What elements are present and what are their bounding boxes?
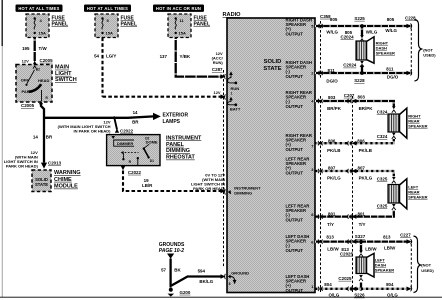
- bottom border line: [0, 296, 442, 298]
- svg-text:S225: S225: [354, 16, 365, 21]
- svg-text:C227: C227: [400, 233, 411, 238]
- svg-text:OUTPUT: OUTPUT: [286, 147, 304, 152]
- svg-text:OUTPUT: OUTPUT: [286, 74, 304, 79]
- splice S327: [355, 234, 366, 244]
- svg-text:LB/W: LB/W: [327, 247, 339, 252]
- left dash speaker SP4: [356, 253, 394, 277]
- svg-text:RUN): RUN): [213, 60, 224, 65]
- svg-text:DOME: DOME: [146, 139, 158, 144]
- node C228: [405, 16, 416, 72]
- splice S226: [354, 287, 365, 298]
- svg-text:GROUND: GROUND: [231, 270, 249, 275]
- svg-text:BR: BR: [46, 135, 53, 140]
- svg-text:SPEAKER: SPEAKER: [376, 51, 395, 56]
- svg-text:PK/LB: PK/LB: [359, 148, 372, 153]
- fuse panel 3 box: [168, 14, 210, 38]
- svg-text:C2025: C2025: [340, 251, 354, 256]
- svg-text:C2024: C2024: [343, 63, 357, 68]
- node C2022 bottom: [121, 166, 142, 175]
- svg-text:813: 813: [326, 235, 334, 240]
- svg-text:D1: D1: [150, 159, 154, 163]
- svg-text:INSTRUMENT: INSTRUMENT: [166, 135, 202, 141]
- right rear speaker SP2: [388, 108, 428, 138]
- svg-text:C2022: C2022: [120, 128, 134, 133]
- svg-text:PARK OR HEAD): PARK OR HEAD): [6, 164, 39, 169]
- svg-text:137: 137: [160, 54, 168, 59]
- wire branch to rheostat C2022: [114, 116, 134, 133]
- instrument panel dimming rheostat U-RHEO: [107, 135, 202, 166]
- svg-text:PANEL: PANEL: [166, 142, 185, 148]
- svg-text:PARK OR HEAD): PARK OR HEAD): [193, 186, 226, 191]
- svg-text:BR/PK: BR/PK: [359, 106, 374, 111]
- wire row6 801 T/Y: [315, 203, 396, 227]
- wire 54 LG/Y: [94, 38, 226, 100]
- radio pin GROUND: [225, 270, 249, 285]
- svg-text:PANEL: PANEL: [121, 22, 138, 28]
- svg-text:C2005: C2005: [21, 103, 35, 108]
- svg-text:HOT IN ACC OR RUN: HOT IN ACC OR RUN: [156, 6, 201, 11]
- svg-text:811: 811: [386, 66, 394, 71]
- node C2005 bottom: [21, 101, 43, 108]
- svg-text:T/Y: T/Y: [359, 222, 366, 227]
- note 0V to 12V: [191, 172, 226, 191]
- connector plane C358/C207 left dashed: [320, 21, 322, 292]
- svg-text:CHIME: CHIME: [54, 177, 72, 183]
- svg-text:803: 803: [358, 95, 366, 100]
- svg-text:LB/W: LB/W: [384, 245, 396, 250]
- svg-text:USED): USED): [421, 268, 434, 273]
- svg-text:801: 801: [328, 212, 336, 217]
- wire branch 811 from speaker to S228: [343, 61, 364, 73]
- svg-text:813: 813: [383, 235, 391, 240]
- svg-text:PK/LG: PK/LG: [359, 176, 373, 181]
- svg-text:GROUNDS: GROUNDS: [159, 242, 185, 248]
- svg-text:STATE: STATE: [35, 182, 48, 187]
- svg-text:OUTPUT: OUTPUT: [286, 31, 304, 36]
- radio right pin label RIGHT REAR SPEAKER (-) pin 4: [286, 90, 315, 109]
- svg-text:(NOT: (NOT: [421, 263, 431, 268]
- svg-text:805: 805: [387, 17, 395, 22]
- node C227: [400, 233, 411, 288]
- svg-text:14: 14: [133, 110, 138, 115]
- svg-text:W/LG: W/LG: [326, 30, 338, 35]
- main light switch U-SW: [16, 61, 77, 102]
- svg-text:S226: S226: [354, 293, 365, 298]
- svg-text:57: 57: [161, 268, 166, 273]
- svg-text:12V: 12V: [22, 58, 29, 63]
- header HOT AT ALL TIMES (middle): [84, 5, 131, 12]
- svg-text:195: 195: [22, 46, 30, 51]
- ground G200: [168, 288, 191, 297]
- svg-text:801: 801: [358, 212, 366, 217]
- svg-text:LG/Y: LG/Y: [106, 54, 116, 59]
- svg-text:OFF: OFF: [21, 77, 30, 82]
- fuse panel 2 box: [95, 14, 137, 38]
- grounds arrow: [159, 242, 185, 259]
- fuse F2 symbol: [101, 17, 113, 35]
- svg-text:C325: C325: [377, 203, 388, 208]
- svg-text:C324: C324: [377, 110, 388, 115]
- svg-text:LB/R: LB/R: [142, 183, 153, 188]
- right dash speaker SP1: [356, 37, 395, 63]
- svg-text:PANEL: PANEL: [194, 22, 211, 28]
- svg-text:C207: C207: [344, 93, 355, 98]
- svg-text:MODULE: MODULE: [54, 184, 78, 190]
- radio right pin label LEFT REAR SPEAKER (+) pin 3: [286, 157, 315, 176]
- page edge artifact left: [1, 0, 3, 46]
- wire row5 807 PK/LG: [315, 165, 396, 183]
- svg-text:BK: BK: [174, 268, 181, 273]
- svg-text:C2005: C2005: [40, 58, 54, 63]
- fuse panel 1 box: [26, 14, 68, 38]
- node C2005 top: [22, 58, 53, 64]
- svg-text:803: 803: [328, 95, 336, 100]
- svg-text:C287: C287: [212, 67, 223, 72]
- radio pin INSTRUMENT DIMMING: [225, 186, 261, 196]
- svg-text:S327: S327: [355, 234, 366, 239]
- svg-text:SWITCH: SWITCH: [55, 77, 77, 83]
- svg-text:C2025: C2025: [338, 276, 352, 281]
- svg-text:DG/O: DG/O: [387, 75, 399, 80]
- node C207: [344, 93, 355, 98]
- svg-text:805: 805: [330, 17, 338, 22]
- svg-text:804: 804: [386, 282, 394, 287]
- connector plane C207 right dashed: [352, 96, 354, 292]
- svg-text:BR: BR: [132, 119, 139, 124]
- svg-text:W/LG: W/LG: [385, 28, 397, 33]
- fuse F3 symbol: [175, 17, 186, 35]
- wire 14 BR horizontal to exterior lamps: [44, 110, 154, 124]
- left rear speaker SP3: [388, 179, 428, 209]
- svg-text:STATE: STATE: [263, 66, 281, 72]
- wire row8 804 O/LG: [315, 282, 412, 298]
- wire row1 805 W/LG: [315, 17, 412, 35]
- svg-text:T/Y: T/Y: [327, 222, 334, 227]
- svg-text:BR/PK: BR/PK: [327, 106, 342, 111]
- wire 137 Y/BK: [160, 38, 226, 79]
- radio right pin label RIGHT REAR SPEAKER (+) pin 7: [286, 133, 315, 152]
- connector plane C287 dashed: [223, 70, 225, 267]
- svg-text:PAGE 10-2: PAGE 10-2: [159, 248, 184, 254]
- svg-text:PK/LB: PK/LB: [327, 148, 340, 153]
- radio right pin label LEFT DASH SPEAKER (-) pin 6: [286, 234, 315, 253]
- svg-text:HOT AT ALL TIMES: HOT AT ALL TIMES: [18, 6, 59, 11]
- note 12V with main light switch (chime): [4, 150, 39, 169]
- svg-text:LIGHT: LIGHT: [55, 71, 72, 77]
- svg-text:806: 806: [357, 138, 365, 143]
- wire branch 813 to left dash speaker: [340, 242, 363, 257]
- wire 57 BK: [161, 259, 181, 288]
- svg-text:14: 14: [33, 135, 38, 140]
- bracket NOT USED top: [415, 20, 437, 82]
- wire row7 813 LB/W: [315, 235, 412, 252]
- svg-text:12V: 12V: [213, 90, 220, 95]
- wire from switch to branch: [41, 103, 44, 118]
- svg-text:C2022: C2022: [128, 170, 142, 175]
- svg-text:SPEAKER: SPEAKER: [375, 268, 394, 273]
- svg-text:807: 807: [328, 165, 336, 170]
- svg-text:LB/W: LB/W: [365, 247, 377, 252]
- svg-text:1: 1: [231, 92, 233, 96]
- wire 594 BK/LG: [172, 269, 226, 286]
- svg-text:MAIN: MAIN: [55, 65, 69, 71]
- svg-text:OUTPUT: OUTPUT: [286, 248, 304, 253]
- svg-text:OUTPUT: OUTPUT: [286, 104, 304, 109]
- svg-text:804: 804: [324, 282, 332, 287]
- svg-text:594: 594: [198, 269, 206, 274]
- svg-text:BATT: BATT: [230, 107, 241, 112]
- svg-text:SPEAKER: SPEAKER: [408, 124, 427, 129]
- svg-text:DG/O: DG/O: [326, 78, 338, 83]
- splice S228: [354, 71, 365, 83]
- svg-text:PANEL: PANEL: [52, 22, 69, 28]
- wire row3 803 BR/PK: [315, 95, 396, 115]
- wire 14 BR down to chime: [33, 117, 53, 163]
- wire 19 LB/R: [123, 171, 226, 194]
- fuse F1 symbol: [34, 17, 46, 35]
- node C287: [212, 51, 224, 72]
- svg-text:RUN: RUN: [231, 86, 240, 91]
- wire row4 806 PK/LB: [315, 133, 396, 153]
- svg-text:4: 4: [229, 191, 231, 195]
- warning chime module U-WCM: [32, 170, 81, 192]
- svg-text:EXTERIOR: EXTERIOR: [163, 112, 189, 118]
- arrow exterior lamps: [153, 112, 188, 125]
- connector arcs rows 3-8 at C207: [348, 99, 357, 291]
- svg-text:OUTPUT: OUTPUT: [286, 217, 304, 222]
- svg-text:806: 806: [328, 138, 336, 143]
- svg-text:S228: S228: [354, 78, 365, 83]
- svg-text:HOT AT ALL TIMES: HOT AT ALL TIMES: [87, 6, 128, 11]
- header HOT IN ACC OR RUN: [153, 5, 204, 12]
- svg-text:IN PARK OR HEAD): IN PARK OR HEAD): [73, 129, 111, 134]
- svg-text:T/W: T/W: [39, 46, 48, 51]
- svg-text:G200: G200: [180, 290, 191, 295]
- svg-text:OUTPUT: OUTPUT: [286, 170, 304, 175]
- svg-text:DIMMER: DIMMER: [117, 141, 133, 146]
- radio right pin label LEFT REAR SPEAKER (-) pin 8: [286, 204, 315, 223]
- svg-text:W/LG: W/LG: [366, 30, 378, 35]
- svg-text:B2: B2: [36, 67, 40, 71]
- svg-text:O/LG: O/LG: [387, 292, 398, 297]
- bracket NOT USED bottom: [414, 236, 435, 293]
- wire branch 805 to right dash speaker: [341, 26, 365, 42]
- svg-text:54: 54: [94, 54, 99, 59]
- radio pin BATT: [225, 94, 241, 111]
- splice S225: [354, 16, 365, 28]
- radio pin RUN: [225, 71, 240, 95]
- svg-text:LAMPS: LAMPS: [163, 119, 181, 125]
- svg-text:BK/LG: BK/LG: [199, 279, 213, 284]
- svg-text:RHEOSTAT: RHEOSTAT: [166, 155, 196, 161]
- node C2013: [41, 160, 62, 168]
- radio right pin label RIGHT DASH SPEAKER (-) pin 2: [286, 60, 315, 79]
- node C358: [320, 14, 331, 19]
- svg-text:DIMMING: DIMMING: [234, 191, 252, 196]
- svg-text:811: 811: [328, 68, 336, 73]
- svg-text:SOLID: SOLID: [264, 59, 282, 65]
- wire branch 804 from speaker to S226: [338, 275, 363, 288]
- svg-text:DIMMING: DIMMING: [166, 148, 190, 154]
- svg-text:PK/LG: PK/LG: [327, 176, 341, 181]
- header HOT AT ALL TIMES (left): [16, 5, 63, 12]
- svg-text:807: 807: [358, 165, 366, 170]
- connector arcs at C358 row1-2: [319, 24, 323, 75]
- svg-text:15A: 15A: [106, 31, 113, 36]
- svg-text:WARNING: WARNING: [54, 170, 81, 176]
- pin hooks at radio edge rows 3-8: [318, 99, 323, 291]
- svg-text:USED): USED): [423, 53, 436, 58]
- radio U-RADIO: [223, 12, 316, 292]
- svg-text:15A: 15A: [39, 31, 46, 36]
- radio right pin label RIGHT DASH SPEAKER (+) pin 5: [286, 18, 315, 37]
- svg-text:SPEAKER: SPEAKER: [408, 195, 427, 200]
- svg-text:Y/BK: Y/BK: [180, 54, 191, 59]
- svg-text:C2024: C2024: [341, 35, 355, 40]
- svg-text:C324: C324: [377, 134, 388, 139]
- radio right pin label LEFT DASH SPEAKER (+) pin 1: [286, 274, 315, 293]
- svg-text:8: 8: [229, 282, 231, 286]
- svg-text:HEAD: HEAD: [38, 78, 49, 83]
- svg-text:OUTPUT: OUTPUT: [286, 288, 304, 293]
- svg-text:C325: C325: [377, 176, 388, 181]
- wire 195 T/W: [22, 38, 47, 62]
- svg-text:C2013: C2013: [48, 160, 62, 165]
- svg-text:O/LG: O/LG: [329, 292, 340, 297]
- svg-text:15A: 15A: [179, 31, 186, 36]
- note 12V with main light switch (upper): [58, 120, 112, 134]
- wire row2 811 DG/O: [315, 66, 412, 83]
